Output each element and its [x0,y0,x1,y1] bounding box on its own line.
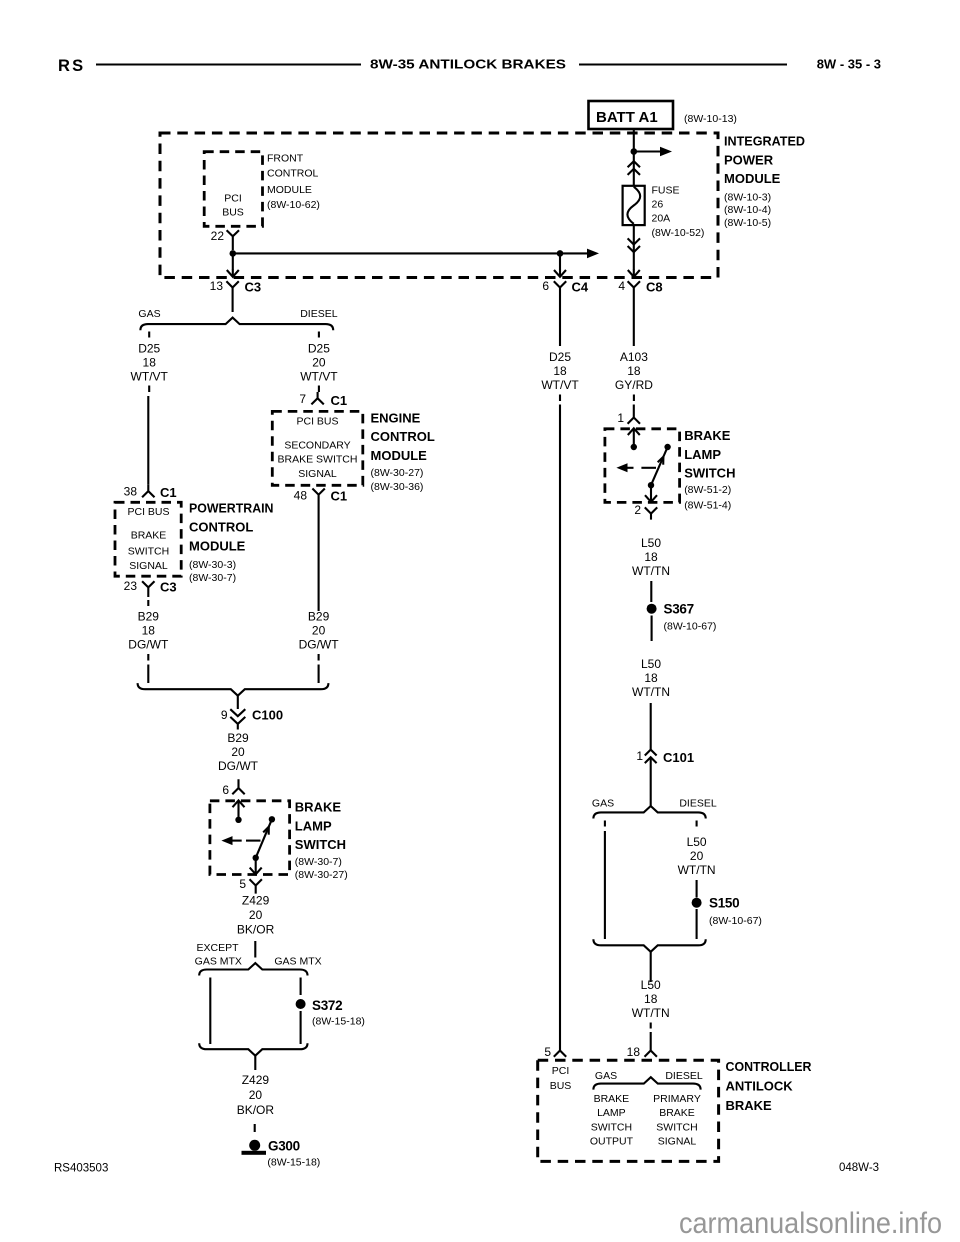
svg-text:(8W-10-5): (8W-10-5) [724,217,771,229]
wire tick below label [559,395,561,402]
wire label L50 20 WT/TN [678,835,716,877]
svg-text:WT/TN: WT/TN [678,863,716,877]
svg-text:18: 18 [644,992,658,1006]
svg-text:7: 7 [299,392,306,406]
svg-text:carmanualsonline.info: carmanualsonline.info [679,1207,942,1240]
svg-text:DG/WT: DG/WT [218,759,259,773]
svg-text:C101: C101 [663,750,694,765]
svg-text:SIGNAL: SIGNAL [298,468,337,480]
svg-text:18: 18 [553,364,567,378]
FRONT CONTROL MODULE dashed box [204,152,262,227]
svg-text:13: 13 [210,279,224,293]
split bracket L50 [593,806,705,819]
wire tick [147,654,149,661]
svg-text:5: 5 [544,1045,551,1059]
svg-text:BK/OR: BK/OR [237,923,275,937]
junction dot at C4 branch [557,250,564,257]
switch blade (left BLS) [256,819,272,858]
merge bracket L50 [593,939,705,952]
wire tick DIESEL branch [318,332,320,338]
svg-text:FRONT: FRONT [267,153,304,165]
svg-text:(8W-30-7): (8W-30-7) [295,856,342,868]
net label PCI BUS (CAB) [550,1065,572,1092]
svg-text:(8W-51-2): (8W-51-2) [684,484,731,496]
svg-text:(8W-10-62): (8W-10-62) [267,199,320,211]
connector C1 (PCM pin 38) [142,485,177,500]
connector pin 2 brake lamp switch (right) [645,507,657,519]
merge bracket Z429 [199,1043,307,1056]
switch actuator arrow left (right BLS) [616,463,633,472]
svg-text:1: 1 [636,749,643,763]
svg-text:SIGNAL: SIGNAL [658,1136,697,1148]
CONTROLLER ANTILOCK BRAKE dashed box [538,1060,719,1161]
svg-text:WT/TN: WT/TN [632,564,670,578]
switch exit arrow (right BLS) [645,485,657,502]
wire fuse to C8 [633,225,635,269]
splice S367 [647,602,717,633]
svg-text:C1: C1 [331,489,348,504]
svg-text:PCI: PCI [224,193,242,205]
svg-text:GAS: GAS [138,308,160,320]
svg-text:SWITCH: SWITCH [128,545,169,557]
svg-text:S150: S150 [709,896,739,911]
svg-text:DG/WT: DG/WT [128,637,169,651]
svg-text:CONTROL: CONTROL [371,429,435,444]
connector pin 22 (FCM) [227,230,239,250]
wire from Z429 to split [254,941,256,958]
wire BATT A1 to fuse [633,129,635,186]
module name BRAKE LAMP SWITCH (right) [684,428,735,512]
split bracket C3 GAS/DIESEL [140,318,333,331]
svg-text:MODULE: MODULE [189,539,246,554]
wire tick to CAB [650,1023,652,1029]
svg-text:D25: D25 [308,342,330,356]
svg-text:S372: S372 [312,998,342,1013]
svg-text:PCI: PCI [552,1065,570,1077]
arrow battery feed right [634,147,672,157]
svg-text:L50: L50 [641,978,661,992]
wire gas branch long (right) [604,831,606,939]
wire tick above ground [254,1124,256,1132]
wire label D25 20 WT/VT (diesel) [300,342,338,384]
BRAKE LAMP SWITCH (8W-30) dashed box [210,801,290,875]
module name BRAKE LAMP SWITCH (left) [295,800,348,882]
svg-text:(8W-10-52): (8W-10-52) [652,227,705,239]
connector C3 (PCM pin 23) [142,580,177,598]
svg-text:GAS: GAS [592,798,614,810]
svg-text:(8W-30-27): (8W-30-27) [371,467,424,479]
inner bracket CAB [593,1077,700,1089]
svg-text:8W-35 ANTILOCK BRAKES: 8W-35 ANTILOCK BRAKES [370,57,566,72]
svg-text:C4: C4 [572,280,589,295]
merge bracket B29 [138,683,329,696]
svg-text:POWER: POWER [724,152,774,167]
svg-text:C1: C1 [331,393,348,408]
wire pin22 junction down to C3 [232,253,234,269]
svg-text:20: 20 [312,356,326,370]
svg-text:8W - 35 - 3: 8W - 35 - 3 [817,57,881,72]
wire label L50 18 WT/TN (joined) [632,978,670,1020]
wire except-gas-mtx branch [209,978,211,1045]
svg-text:ENGINE: ENGINE [371,411,421,426]
svg-text:BATT A1: BATT A1 [596,109,658,126]
INTEGRATED POWER MODULE dashed box [160,133,718,278]
svg-text:18: 18 [644,550,658,564]
svg-text:9: 9 [221,708,228,722]
svg-text:INTEGRATED: INTEGRATED [724,134,805,149]
connector pin 6 brake lamp switch [232,779,244,794]
branch label EXCEPT GAS MTX [195,942,242,968]
wire label A103 18 GY/RD [615,350,653,392]
svg-text:20: 20 [312,623,326,637]
wire diesel B29 down [318,503,320,611]
connector C8 [628,280,663,347]
svg-text:C3: C3 [160,580,177,595]
svg-text:1: 1 [617,411,624,425]
splice S372 [296,998,365,1028]
fuse 26 20A [623,186,645,225]
switch contact dot lower (right BLS) [648,482,654,488]
svg-text:6: 6 [222,783,229,797]
switch blade arrowhead (right BLS) [658,457,664,465]
switch blade (right BLS) [651,447,668,485]
splice S150 [692,896,762,928]
svg-text:BRAKE: BRAKE [131,530,167,542]
svg-text:20: 20 [690,849,704,863]
svg-text:PRIMARY: PRIMARY [653,1093,701,1105]
wire tick below label [633,395,635,402]
svg-text:BRAKE SWITCH: BRAKE SWITCH [278,453,358,465]
svg-text:20: 20 [231,745,245,759]
svg-text:RS: RS [58,57,85,75]
exit arrow C4 at IPM edge [554,269,566,277]
svg-text:BRAKE: BRAKE [659,1107,695,1119]
svg-text:SWITCH: SWITCH [295,837,346,852]
switch entry arrow (left BLS) [233,800,245,819]
net label BRAKE LAMP SWITCH OUTPUT [590,1093,634,1148]
svg-text:18: 18 [627,1045,641,1059]
svg-text:BRAKE: BRAKE [295,800,342,815]
svg-text:Z429: Z429 [242,1073,270,1087]
svg-text:MODULE: MODULE [724,171,781,186]
net label BRAKE SWITCH SIGNAL (PCM) [128,530,169,573]
svg-text:18: 18 [143,356,157,370]
wire tick gas branch (right) [604,821,606,827]
module name ENGINE CONTROL MODULE [371,411,435,493]
header rule right [579,63,787,65]
svg-text:(8W-15-18): (8W-15-18) [267,1156,320,1168]
svg-text:D25: D25 [138,342,160,356]
connector C3 [226,280,261,313]
svg-text:(8W-30-3): (8W-30-3) [189,559,236,571]
wire tick [318,654,320,661]
svg-text:WT/TN: WT/TN [632,685,670,699]
svg-text:D25: D25 [549,350,571,364]
svg-text:BRAKE: BRAKE [726,1098,773,1113]
svg-text:Z429: Z429 [242,894,270,908]
svg-text:DG/WT: DG/WT [299,637,340,651]
svg-text:BUS: BUS [222,207,244,219]
svg-text:C100: C100 [252,708,283,723]
wire into CAB pin 18 [650,1032,652,1044]
wire gas B29 to join [147,665,149,684]
svg-text:(8W-30-27): (8W-30-27) [295,869,348,881]
wire tick diesel branch (right) [696,821,698,827]
connector C1 (ECM pin 7) [311,392,347,408]
svg-text:LAMP: LAMP [684,447,721,462]
wire label Z429 20 BK/OR [237,894,275,937]
module name CONTROLLER ANTILOCK BRAKE [726,1059,813,1113]
net label SECONDARY BRAKE SWITCH SIGNAL [278,440,358,481]
ground G300 [242,1139,321,1169]
wire C4 D25 long run to CAB [559,405,561,1042]
svg-text:26: 26 [652,199,664,211]
svg-text:LAMP: LAMP [295,819,332,834]
module name FRONT CONTROL MODULE [267,153,320,211]
svg-text:6: 6 [542,279,549,293]
wire C4 drop inside IPM [559,253,561,269]
junction dot battery feed [631,148,638,155]
switch blade arrowhead [263,827,269,835]
wire label D25 18 WT/VT (C4 feed) [541,350,579,392]
svg-text:(8W-10-67): (8W-10-67) [664,621,717,633]
wire tick below PCM [147,600,149,606]
switch contact dot lower [253,855,259,861]
net label PRIMARY BRAKE SWITCH SIGNAL [653,1093,701,1148]
svg-text:18: 18 [627,364,641,378]
svg-text:MODULE: MODULE [371,448,428,463]
exit arrow C8 at IPM edge [628,269,640,277]
header rule left [96,63,361,65]
wire label Z429 20 BK/OR (joined) [237,1073,275,1117]
svg-text:(8W-10-67): (8W-10-67) [709,915,762,927]
switch actuator tick [246,840,261,842]
svg-text:PCI BUS: PCI BUS [127,506,169,518]
wire below S367 [651,616,653,642]
wire diesel B29 to join [318,665,320,684]
svg-text:POWERTRAIN: POWERTRAIN [189,501,274,516]
svg-text:CONTROLLER: CONTROLLER [726,1059,813,1074]
junction dot at FCM pin 22 [230,250,237,257]
switch entry arrow (right BLS) [628,428,640,447]
connector pin 18 CAB [645,1044,657,1057]
connector C1 (ECM pin 48) [312,489,347,504]
svg-text:DIESEL: DIESEL [679,798,717,810]
svg-text:22: 22 [211,229,225,243]
svg-text:GAS MTX: GAS MTX [274,956,321,968]
connector pin 1 brake lamp switch (right) [628,405,640,424]
svg-text:BRAKE: BRAKE [684,428,731,443]
svg-text:BUS: BUS [550,1080,572,1092]
svg-text:SWITCH: SWITCH [591,1121,632,1133]
svg-text:S367: S367 [664,602,694,617]
exit arrow C3 at IPM edge [227,269,239,277]
svg-text:LAMP: LAMP [597,1107,626,1119]
svg-text:B29: B29 [138,610,160,624]
split bracket Z429 [199,963,307,975]
connector C4 [554,280,589,347]
svg-text:FUSE: FUSE [652,185,680,197]
svg-text:(8W-51-4): (8W-51-4) [684,500,731,512]
svg-text:5: 5 [239,877,246,891]
fuse value label FUSE 26 20A (8W-10-52) [652,185,705,240]
wire tick GAS branch [148,332,150,338]
wire label B29 18 DG/WT [128,610,169,652]
connector C100 [230,696,283,730]
switch contact dot upper left [235,817,241,823]
connector pin 5 CAB [554,1042,566,1057]
switch contact dot upper right [269,816,275,822]
svg-text:ANTILOCK: ANTILOCK [726,1079,794,1094]
svg-text:(8W-10-13): (8W-10-13) [684,113,737,125]
wire label L50 18 WT/TN [632,536,670,578]
svg-text:WT/VT: WT/VT [300,370,338,384]
svg-text:20A: 20A [652,213,671,225]
wire to S367 [650,581,652,602]
svg-text:B29: B29 [227,731,249,745]
svg-text:MODULE: MODULE [267,184,312,196]
svg-text:SIGNAL: SIGNAL [129,560,168,572]
connector pin 5 brake lamp switch [250,879,262,893]
svg-text:RS403503: RS403503 [54,1162,108,1174]
svg-text:GAS MTX: GAS MTX [195,956,242,968]
svg-text:48: 48 [294,489,308,503]
svg-text:SWITCH: SWITCH [656,1121,697,1133]
svg-text:L50: L50 [641,536,661,550]
ENGINE CONTROL MODULE dashed box [272,411,363,485]
svg-text:WT/VT: WT/VT [131,370,169,384]
svg-text:BRAKE: BRAKE [594,1093,630,1105]
module name POWERTRAIN CONTROL MODULE [189,501,274,584]
wire tick gas-mtx branch [300,978,302,996]
svg-text:L50: L50 [641,657,661,671]
wire below S372 [300,1011,302,1044]
battery box BATT A1 [589,101,674,129]
wire horizontal bus to C4 [233,252,560,254]
wire label B29 20 DG/WT (diesel) [299,610,340,652]
wire label D25 18 WT/VT (gas) [131,342,169,384]
svg-text:SWITCH: SWITCH [684,466,735,481]
svg-text:(8W-30-7): (8W-30-7) [189,572,236,584]
fusible link chevrons up [628,161,640,175]
BRAKE LAMP SWITCH (8W-51) dashed box [605,429,680,503]
wire below S150 [696,909,698,939]
svg-text:(8W-15-18): (8W-15-18) [312,1016,365,1028]
svg-text:SECONDARY: SECONDARY [284,440,350,452]
POWERTRAIN CONTROL MODULE dashed box [115,502,181,576]
wire tick below label [148,386,150,393]
svg-text:C3: C3 [245,280,262,295]
arrow continuation right [560,249,599,259]
switch actuator tick (right BLS) [641,467,656,469]
svg-text:2: 2 [634,503,641,517]
svg-text:GY/RD: GY/RD [615,378,653,392]
wire to S150 [696,880,698,898]
wire label B29 20 DG/WT (joined) [218,731,259,773]
svg-text:B29: B29 [308,610,330,624]
wire down to C101 [650,703,652,749]
wire below C101 to split [650,757,652,806]
switch actuator arrow left [221,836,241,845]
chevrons down after fuse [628,238,640,252]
wire below merge (right) [650,952,652,982]
svg-text:G300: G300 [268,1139,300,1154]
svg-text:4: 4 [618,279,625,293]
svg-text:CONTROL: CONTROL [189,520,253,535]
svg-text:DIESEL: DIESEL [665,1070,703,1082]
svg-text:048W-3: 048W-3 [839,1162,879,1174]
svg-text:BK/OR: BK/OR [237,1103,275,1117]
svg-text:A103: A103 [620,350,648,364]
net label PCI BUS (FCM) [222,193,244,219]
switch contact dot upper right (right BLS) [664,444,670,450]
svg-text:(8W-10-3): (8W-10-3) [724,191,771,203]
svg-text:18: 18 [142,623,156,637]
svg-text:18: 18 [644,671,658,685]
svg-text:C1: C1 [160,485,177,500]
svg-text:PCI BUS: PCI BUS [296,416,338,428]
svg-text:20: 20 [249,1088,263,1102]
connector C101 [645,750,694,765]
switch exit arrow (left BLS) [250,858,262,875]
svg-text:OUTPUT: OUTPUT [590,1136,634,1148]
svg-text:23: 23 [124,579,138,593]
svg-text:38: 38 [124,485,138,499]
svg-text:DIESEL: DIESEL [300,308,338,320]
svg-text:WT/VT: WT/VT [541,378,579,392]
switch contact dot upper left (right BLS) [631,444,637,450]
wire below merge [254,1056,256,1070]
svg-text:EXCEPT: EXCEPT [196,942,239,954]
svg-text:GAS: GAS [595,1070,617,1082]
module name INTEGRATED POWER MODULE [724,134,805,230]
svg-text:(8W-10-4): (8W-10-4) [724,204,771,216]
svg-text:WT/TN: WT/TN [632,1006,670,1020]
svg-text:L50: L50 [687,835,707,849]
svg-text:CONTROL: CONTROL [267,168,318,180]
svg-text:20: 20 [249,908,263,922]
wire tick below label [318,386,320,393]
svg-text:C8: C8 [646,280,663,295]
wire gas branch down to PCM [147,396,149,485]
wire label L50 18 WT/TN (below S367) [632,657,670,699]
svg-text:(8W-30-36): (8W-30-36) [371,481,424,493]
